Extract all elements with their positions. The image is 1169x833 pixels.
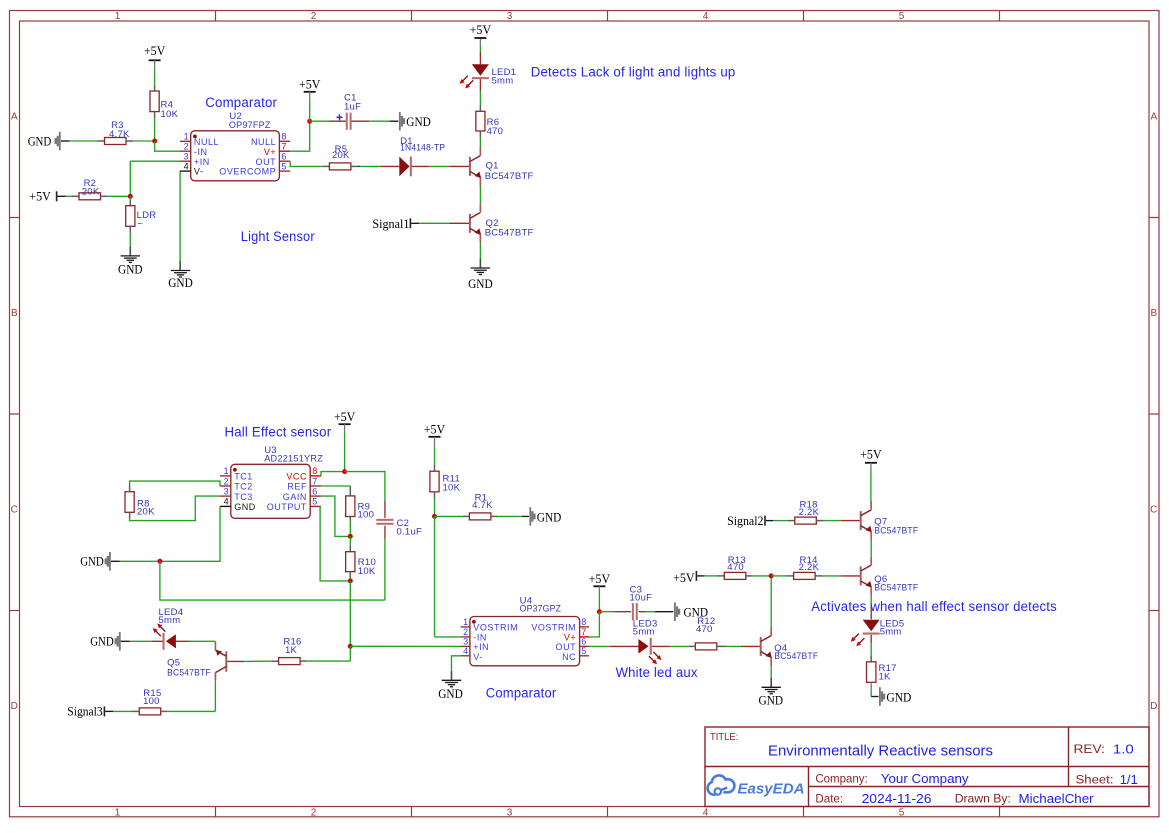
svg-text:5mm: 5mm xyxy=(880,626,902,637)
power +5V (Q7) xyxy=(860,448,882,471)
svg-text:OP97FPZ: OP97FPZ xyxy=(229,120,271,131)
transistor Q5 (mirrored) xyxy=(167,641,244,680)
wire Q4 emitter to ground xyxy=(770,657,772,687)
svg-text:BC547BTF: BC547BTF xyxy=(485,171,534,182)
svg-text:GND: GND xyxy=(438,687,463,701)
svg-text:10K: 10K xyxy=(161,109,179,120)
svg-text:3: 3 xyxy=(507,808,513,819)
annotation Light Sensor xyxy=(241,229,315,244)
node R2/LDR junction xyxy=(128,194,133,199)
wire +5V to junction xyxy=(598,593,600,612)
svg-text:5mm: 5mm xyxy=(633,626,655,637)
svg-text:100: 100 xyxy=(358,510,375,521)
svg-text:20K: 20K xyxy=(137,507,155,518)
svg-text:3: 3 xyxy=(507,11,513,22)
svg-text:+5V: +5V xyxy=(673,571,695,585)
transistor Q6 xyxy=(861,565,919,593)
svg-text:1: 1 xyxy=(463,617,468,627)
svg-text:TC1: TC1 xyxy=(234,472,253,482)
svg-text:1uF: 1uF xyxy=(344,101,361,112)
hall sensor U3 AD22151YRZ xyxy=(220,445,323,518)
wire R8 bottom to U3 pin3 xyxy=(130,496,220,520)
svg-text:Your Company: Your Company xyxy=(881,771,969,786)
node -IN branch junction xyxy=(348,644,353,649)
wire R5 to D1 xyxy=(358,165,380,167)
wire junction to U2 pin2 xyxy=(155,141,180,151)
svg-text:NULL: NULL xyxy=(251,137,276,147)
resistor R5 xyxy=(329,144,358,170)
power +5V (C1) xyxy=(299,78,321,122)
capacitor C1 1uF xyxy=(310,113,352,130)
svg-text:OUT: OUT xyxy=(556,642,577,652)
resistor R11 xyxy=(430,471,461,498)
resistor R3 xyxy=(105,120,134,144)
svg-text:GND: GND xyxy=(886,690,911,704)
svg-text:4.7K: 4.7K xyxy=(109,129,130,140)
svg-text:470: 470 xyxy=(487,126,504,137)
svg-text:2.2K: 2.2K xyxy=(799,562,820,573)
annotation Activates xyxy=(811,599,1057,614)
power flag Signal2 xyxy=(727,514,766,528)
svg-text:D: D xyxy=(11,701,18,712)
power +5V (R11) xyxy=(424,423,446,448)
wire U3 pin4 to GND rail xyxy=(111,506,220,561)
svg-text:-IN: -IN xyxy=(473,633,487,643)
svg-text:OP37GPZ: OP37GPZ xyxy=(520,603,562,614)
wire Q7 emitter to Q6 collector xyxy=(870,532,872,566)
wire R16 to mid rail xyxy=(307,660,350,662)
svg-text:6: 6 xyxy=(281,152,286,162)
svg-text:+5V: +5V xyxy=(334,410,356,424)
svg-text:4: 4 xyxy=(184,162,189,172)
svg-text:Detects Lack of light and ligh: Detects Lack of light and lights up xyxy=(531,64,736,79)
svg-text:Company:: Company: xyxy=(815,772,867,786)
svg-text:+5V: +5V xyxy=(860,448,882,462)
wire R12 to Q4 xyxy=(726,645,760,647)
svg-text:3: 3 xyxy=(184,152,189,162)
svg-text:V+: V+ xyxy=(564,633,576,643)
diode D1 1N4148-TP xyxy=(380,136,445,176)
power +5V (LED1) xyxy=(470,23,492,38)
svg-text:5: 5 xyxy=(899,11,905,22)
svg-text:1: 1 xyxy=(115,11,121,22)
wire Signal1 to Q2 xyxy=(411,222,469,224)
annotation White led aux xyxy=(616,665,698,680)
transistor Q4 xyxy=(761,636,819,663)
C1 labels xyxy=(337,92,362,120)
node C1 junction xyxy=(307,119,312,124)
svg-text:+5V: +5V xyxy=(299,78,321,92)
node R10/OUT junction xyxy=(348,578,353,583)
wire C1 to GND flag xyxy=(352,120,399,122)
svg-text:GND: GND xyxy=(90,635,114,649)
wire U3 pin7 to R9 xyxy=(321,486,350,496)
wire junction to R14 xyxy=(771,575,793,577)
svg-text:VCC: VCC xyxy=(286,472,307,482)
svg-text:+5V: +5V xyxy=(589,572,611,586)
svg-text:BC547BTF: BC547BTF xyxy=(774,651,818,662)
svg-text:7: 7 xyxy=(312,476,317,486)
power +5V (R4 top) xyxy=(144,44,166,69)
resistor LDR xyxy=(126,206,157,233)
svg-text:Comparator: Comparator xyxy=(486,686,557,701)
ground earth (LDR) xyxy=(118,256,143,276)
resistor R9 xyxy=(346,496,374,521)
svg-text:GND: GND xyxy=(468,277,493,291)
svg-text:GND: GND xyxy=(118,262,143,276)
svg-text:1: 1 xyxy=(224,466,229,476)
wire R18 to Q7 xyxy=(823,520,860,522)
svg-text:EasyEDA: EasyEDA xyxy=(738,782,805,798)
wire LED4 to Q5 emitter xyxy=(189,640,215,642)
svg-text:100: 100 xyxy=(143,696,160,707)
svg-text:Drawn By:: Drawn By: xyxy=(955,791,1011,805)
svg-text:GND: GND xyxy=(168,276,193,290)
svg-text:4: 4 xyxy=(703,808,709,819)
wire +5V to R13 xyxy=(697,575,724,577)
transistor Q7 xyxy=(861,510,919,537)
wire +5V to R4 xyxy=(154,69,156,91)
op-amp U4 OP37GPZ xyxy=(461,596,589,666)
ground flag GND (R1) xyxy=(529,507,561,526)
svg-text:8: 8 xyxy=(581,617,586,627)
ground flag GND (LED4) xyxy=(90,632,121,651)
wire junction down mid rail xyxy=(349,581,351,646)
svg-text:Signal2: Signal2 xyxy=(727,514,763,528)
annotation Comparator (bottom) xyxy=(486,686,557,701)
wire junction to U4 -IN xyxy=(435,516,461,637)
ground flag GND (U3) xyxy=(80,552,111,571)
wire R1 to GND flag xyxy=(498,515,529,517)
svg-text:2: 2 xyxy=(224,476,229,486)
wire R11 to junction xyxy=(434,498,436,516)
power flag Signal1 xyxy=(372,217,411,231)
resistor R12 xyxy=(695,616,726,650)
svg-text:20K: 20K xyxy=(82,186,100,197)
svg-text:Hall Effect sensor: Hall Effect sensor xyxy=(225,425,332,440)
svg-text:6: 6 xyxy=(312,486,317,496)
wire R15 to Q5 xyxy=(168,710,216,712)
svg-text:GND: GND xyxy=(406,115,431,129)
svg-text:A: A xyxy=(11,111,18,122)
ground earth (Q4) xyxy=(759,687,784,707)
wire +5V to Q7 collector xyxy=(870,471,872,510)
wire junction to U4 +IN xyxy=(350,645,460,647)
wire R3 to junction xyxy=(133,140,155,142)
resistor R14 xyxy=(794,555,823,580)
svg-text:AD22151YRZ: AD22151YRZ xyxy=(264,453,323,464)
wire Q1 emitter to Q2 collector xyxy=(479,177,481,212)
svg-text:VOSTRIM: VOSTRIM xyxy=(531,623,576,633)
svg-text:1K: 1K xyxy=(879,671,892,682)
svg-text:Date:: Date: xyxy=(815,791,843,805)
title block xyxy=(705,727,1149,807)
svg-text:4: 4 xyxy=(224,497,229,507)
svg-text:OUTPUT: OUTPUT xyxy=(267,502,307,512)
svg-text:V-: V- xyxy=(473,652,483,662)
svg-text:5: 5 xyxy=(281,162,286,172)
annotation Comparator (top) xyxy=(205,95,277,110)
wire U4 OUT to LED3 xyxy=(589,645,639,647)
power flag Signal3 xyxy=(67,704,105,718)
svg-text:GND: GND xyxy=(28,134,52,148)
svg-text:GAIN: GAIN xyxy=(283,492,307,502)
ground flag GND (C3) xyxy=(674,602,708,621)
svg-text:D: D xyxy=(1150,701,1157,712)
wire GND flag to LED4 xyxy=(121,640,152,642)
svg-text:White led aux: White led aux xyxy=(616,665,698,680)
svg-text:NC: NC xyxy=(562,652,576,662)
wire U4 V+ to junction xyxy=(589,612,599,637)
EasyEDA logo xyxy=(708,775,805,797)
ground flag GND (R3 left) xyxy=(28,132,61,151)
svg-text:0.1uF: 0.1uF xyxy=(397,526,423,537)
svg-text:TITLE:: TITLE: xyxy=(710,732,738,743)
svg-text:5: 5 xyxy=(312,497,317,507)
svg-text:7: 7 xyxy=(281,142,286,152)
wire Signal2 to R18 xyxy=(766,520,795,522)
power flag +5V (R2 left) xyxy=(29,190,57,204)
svg-text:GND: GND xyxy=(80,555,104,569)
wire Q2 emitter to ground xyxy=(479,234,481,268)
wire junction to R10 xyxy=(349,536,351,551)
svg-text:VOSTRIM: VOSTRIM xyxy=(473,623,518,633)
wire U3 pin8 to node xyxy=(321,472,345,476)
LED LED1 5mm xyxy=(460,64,517,88)
wire node to C2 xyxy=(345,472,385,501)
svg-text:Signal1: Signal1 xyxy=(372,217,409,231)
svg-text:OUT: OUT xyxy=(256,157,277,167)
wire C3 to GND flag xyxy=(646,611,674,613)
node GND rail junction xyxy=(157,559,162,564)
svg-text:10uF: 10uF xyxy=(630,592,653,603)
svg-text:+IN: +IN xyxy=(473,642,489,652)
svg-text:-IN: -IN xyxy=(194,147,208,157)
wire mid rail to R16 xyxy=(349,646,351,661)
svg-text:BC547BTF: BC547BTF xyxy=(485,227,534,238)
svg-text:5: 5 xyxy=(581,646,586,656)
wire R2 to junction xyxy=(108,195,131,197)
wire U3 pin6 to junction xyxy=(321,496,350,536)
svg-text:GND: GND xyxy=(759,694,784,708)
svg-text:1.0: 1.0 xyxy=(1113,742,1134,757)
svg-text:4: 4 xyxy=(463,646,468,656)
svg-text:TC3: TC3 xyxy=(234,492,253,502)
op-amp U2 OP97FPZ xyxy=(180,111,290,181)
svg-text:4.7K: 4.7K xyxy=(472,500,493,511)
wire R10 to junction xyxy=(349,577,351,581)
svg-text:1: 1 xyxy=(184,132,189,142)
svg-text:BC547BTF: BC547BTF xyxy=(874,582,918,593)
node VCC junction xyxy=(342,469,347,474)
svg-text:10K: 10K xyxy=(443,483,461,494)
wire R17 to GND flag xyxy=(871,691,878,697)
transistor Q2 xyxy=(470,213,534,239)
node R3/R4 junction xyxy=(152,139,157,144)
resistor R15 xyxy=(139,688,168,715)
wire R14 to Q6 xyxy=(822,575,860,577)
LED LED5 5mm xyxy=(851,619,905,647)
svg-text:470: 470 xyxy=(727,562,744,573)
wire U2 pin4 to ground xyxy=(179,171,181,270)
LED LED4 5mm xyxy=(152,607,189,650)
svg-text:BC547BTF: BC547BTF xyxy=(874,525,918,536)
wire R13 to junction xyxy=(753,575,771,577)
svg-text:1: 1 xyxy=(115,808,121,819)
wire +5V to VCC node xyxy=(344,433,346,472)
svg-text:2: 2 xyxy=(463,627,468,637)
svg-text:7: 7 xyxy=(581,627,586,637)
svg-text:20K: 20K xyxy=(332,150,350,161)
wire Q6 emitter to LED5 xyxy=(870,587,872,619)
svg-text:4: 4 xyxy=(703,11,709,22)
svg-text:C: C xyxy=(11,504,18,515)
wire U4 V- to ground xyxy=(452,656,461,681)
capacitor C2 0.1uF xyxy=(376,501,422,539)
node R9/R10 junction xyxy=(348,534,353,539)
resistor R2 xyxy=(79,178,108,200)
wire R6 to LED1 xyxy=(479,78,481,105)
svg-text:A: A xyxy=(1150,111,1157,122)
wire +IN net xyxy=(130,161,180,196)
wire junction to LDR xyxy=(129,196,131,205)
svg-text:470: 470 xyxy=(696,624,713,635)
wire GND rail down xyxy=(160,561,385,600)
wire LED5 to R17 xyxy=(870,635,872,662)
svg-text:OVERCOMP: OVERCOMP xyxy=(219,167,276,177)
wire U2 pin7 to +5V xyxy=(290,121,310,151)
svg-text:V+: V+ xyxy=(264,147,276,157)
svg-text:+IN: +IN xyxy=(194,157,210,167)
wire Q1 collector to R6 xyxy=(479,131,481,156)
svg-text:+5V: +5V xyxy=(470,23,492,37)
svg-text:BC547BTF: BC547BTF xyxy=(167,667,211,678)
ground flag GND (R17) xyxy=(879,687,911,706)
power +5V (U4) xyxy=(589,572,611,593)
wire +5V to R11 xyxy=(434,447,436,471)
resistor R16 xyxy=(279,637,308,665)
svg-text:REV:: REV: xyxy=(1074,742,1106,756)
resistor R10 xyxy=(346,552,376,577)
resistor R13 xyxy=(724,555,753,580)
resistor R8 xyxy=(125,485,155,519)
svg-text:5: 5 xyxy=(899,808,905,819)
svg-text:8: 8 xyxy=(312,466,317,476)
svg-text:2: 2 xyxy=(311,808,317,819)
svg-text:TC2: TC2 xyxy=(234,482,253,492)
wire +5V to R2 xyxy=(57,195,79,197)
svg-text:5mm: 5mm xyxy=(159,615,181,626)
wire Signal3 to R15 xyxy=(105,710,139,712)
svg-text:2: 2 xyxy=(184,142,189,152)
wire LED3 to R12 xyxy=(652,645,695,647)
LED LED3 5mm xyxy=(633,619,662,665)
svg-text:V-: V- xyxy=(194,167,204,177)
resistor R18 xyxy=(795,499,824,524)
wire U2 OUT to R5 xyxy=(290,161,329,166)
resistor R6 xyxy=(476,105,503,137)
wire Q5 collector to R15 xyxy=(214,680,216,711)
svg-text:10K: 10K xyxy=(358,566,376,577)
resistor R4 xyxy=(150,91,179,120)
svg-text:Environmentally Reactive senso: Environmentally Reactive sensors xyxy=(768,742,993,759)
power flag +5V (R13) xyxy=(673,571,697,585)
node R13/R14 junction xyxy=(769,573,774,578)
svg-text:GND: GND xyxy=(234,502,256,512)
wire R4 to junction xyxy=(154,118,156,141)
svg-text:Light Sensor: Light Sensor xyxy=(241,229,315,244)
ground flag GND (C1) xyxy=(399,112,431,131)
svg-text:1/1: 1/1 xyxy=(1120,772,1138,787)
svg-text:8: 8 xyxy=(281,132,286,142)
wire junction to R1 xyxy=(435,515,470,517)
svg-text:+5V: +5V xyxy=(29,190,51,204)
wire GND to R3 xyxy=(61,140,105,142)
node R11/R1 junction xyxy=(432,514,437,519)
resistor R17 xyxy=(867,662,897,691)
svg-text:GND: GND xyxy=(537,510,562,524)
power +5V (U3) xyxy=(334,410,356,433)
annotation Hall Effect sensor xyxy=(225,425,332,440)
svg-text:1N4148-TP: 1N4148-TP xyxy=(400,143,445,154)
svg-text:Signal3: Signal3 xyxy=(67,704,102,718)
wire LED1 to +5V xyxy=(479,39,481,65)
svg-text:B: B xyxy=(11,308,18,319)
ground earth (U2 V-) xyxy=(168,271,193,291)
wire D1 to Q1 xyxy=(429,165,469,167)
svg-text:B: B xyxy=(1150,308,1157,319)
transistor Q1 xyxy=(470,156,534,182)
svg-text:2024-11-26: 2024-11-26 xyxy=(862,791,932,806)
wire U3 OUTPUT to junction xyxy=(320,506,350,581)
capacitor C3 10uF xyxy=(599,585,652,621)
svg-text:Sheet:: Sheet: xyxy=(1076,773,1114,787)
svg-text:3: 3 xyxy=(224,486,229,496)
wire R9 to junction xyxy=(349,521,351,536)
svg-text:NULL: NULL xyxy=(194,137,219,147)
resistor R1 xyxy=(469,492,498,520)
svg-text:1K: 1K xyxy=(285,645,298,656)
ground earth (Q2) xyxy=(468,268,493,291)
wire C2 to bottom rail xyxy=(384,539,386,600)
svg-text:Activates when hall effect sen: Activates when hall effect sensor detect… xyxy=(811,599,1057,614)
wire Q4 collector up xyxy=(770,576,772,636)
svg-text:REF: REF xyxy=(287,482,307,492)
svg-text:+5V: +5V xyxy=(144,44,166,58)
svg-text:2.2K: 2.2K xyxy=(799,507,820,518)
svg-text:MichaelCher: MichaelCher xyxy=(1019,791,1095,806)
svg-text:5mm: 5mm xyxy=(492,75,514,86)
wire R8 top to U3 pin2 xyxy=(130,481,220,486)
ground earth (U4) xyxy=(438,680,463,701)
wire Q5 base to R16 xyxy=(244,660,278,662)
svg-text:2: 2 xyxy=(311,11,317,22)
wire LDR to ground xyxy=(129,233,131,256)
svg-text:+5V: +5V xyxy=(424,423,446,437)
svg-text:C: C xyxy=(1150,504,1157,515)
svg-text:Comparator: Comparator xyxy=(205,95,277,110)
annotation detects xyxy=(531,64,736,79)
node C3 junction xyxy=(597,609,602,614)
svg-text:~: ~ xyxy=(137,219,143,230)
